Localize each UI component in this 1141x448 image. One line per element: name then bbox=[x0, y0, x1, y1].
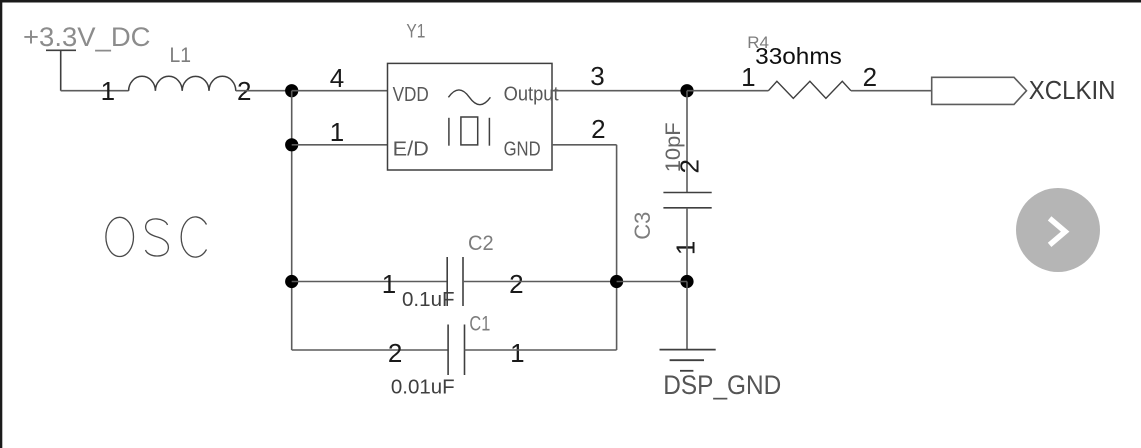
wire R4 to connector bbox=[851, 90, 932, 92]
svg-text:XCLKIN: XCLKIN bbox=[1029, 75, 1116, 105]
node A junction dot bbox=[285, 84, 298, 97]
svg-text:33ohms: 33ohms bbox=[755, 43, 842, 69]
svg-text:1: 1 bbox=[670, 241, 700, 255]
crystal symbol inside Y1 bbox=[449, 117, 490, 146]
svg-text:C2: C2 bbox=[468, 232, 494, 255]
frame top border bbox=[0, 0, 1141, 3]
svg-text:C1: C1 bbox=[469, 313, 490, 336]
svg-text:0.1uF: 0.1uF bbox=[402, 289, 455, 311]
power symbol +3.3V_DC bbox=[46, 50, 76, 90]
wire node C down to capacitor C3 bbox=[686, 91, 688, 193]
wire node A to VDD pin bbox=[292, 90, 388, 92]
svg-text:2: 2 bbox=[388, 338, 402, 368]
wire vertical left bus x=291.7 bbox=[291, 91, 293, 350]
svg-text:VDD: VDD bbox=[393, 84, 429, 106]
svg-text:1: 1 bbox=[101, 76, 115, 106]
node C junction dot bbox=[680, 84, 693, 97]
wire C2 right plate to right bus bbox=[463, 281, 617, 283]
wire node D to ground bbox=[686, 282, 688, 350]
wire GND pin to right bus bbox=[552, 144, 617, 146]
wire C3 to node D bbox=[686, 208, 688, 282]
wire Output pin to node C bbox=[552, 90, 687, 92]
svg-text:DSP_GND: DSP_GND bbox=[663, 370, 781, 400]
svg-text:Output: Output bbox=[504, 84, 559, 106]
resistor R4 bbox=[768, 81, 851, 98]
ground symbol DSP_GND bbox=[660, 350, 716, 371]
svg-text:1: 1 bbox=[741, 62, 755, 92]
svg-text:GND: GND bbox=[504, 139, 541, 161]
svg-text:1: 1 bbox=[330, 117, 344, 147]
wire node B to E/D pin bbox=[292, 144, 388, 146]
svg-text:C3: C3 bbox=[630, 212, 655, 240]
title text OSC (single-stroke letters) bbox=[106, 217, 207, 257]
node D junction dot bbox=[680, 275, 693, 288]
capacitor C1 bbox=[448, 325, 464, 376]
svg-text:2: 2 bbox=[591, 114, 605, 144]
wire left bus to C1 left plate bbox=[292, 349, 448, 351]
oscillator U1 box Y1 bbox=[388, 63, 553, 170]
svg-text:L1: L1 bbox=[170, 44, 192, 67]
svg-text:Y1: Y1 bbox=[406, 22, 425, 43]
node E junction dot (left bus, C2 row) bbox=[285, 275, 298, 288]
carousel next button bbox=[1016, 188, 1100, 272]
svg-text:E/D: E/D bbox=[393, 139, 429, 161]
wire from power to inductor L1 bbox=[61, 90, 129, 92]
wire node F to node D bbox=[617, 281, 687, 283]
svg-text:0.01uF: 0.01uF bbox=[391, 376, 455, 398]
connector XCLKIN off-page symbol bbox=[932, 77, 1027, 104]
svg-text:1: 1 bbox=[510, 338, 524, 368]
svg-text:+3.3V_DC: +3.3V_DC bbox=[23, 22, 151, 52]
capacitor C2 bbox=[447, 257, 463, 306]
wire L1 to node A bbox=[236, 90, 292, 92]
svg-text:2: 2 bbox=[674, 159, 704, 173]
svg-text:2: 2 bbox=[863, 62, 877, 92]
wire node C to resistor R4 bbox=[687, 90, 768, 92]
wire node E to C2 left plate bbox=[292, 281, 448, 283]
inductor L1 bbox=[129, 76, 236, 91]
wire C1 right plate to right bus bbox=[465, 349, 617, 351]
svg-text:4: 4 bbox=[330, 63, 344, 93]
frame left border bbox=[0, 0, 2, 448]
sine wave symbol inside Y1 bbox=[448, 90, 490, 105]
svg-text:3: 3 bbox=[590, 61, 604, 91]
node F junction dot (right bus, C2 row) bbox=[610, 275, 623, 288]
svg-text:1: 1 bbox=[382, 269, 396, 299]
node B junction dot bbox=[285, 138, 298, 151]
svg-text:2: 2 bbox=[509, 269, 523, 299]
capacitor C3 bbox=[663, 193, 711, 208]
wire vertical right bus x=616.6 bbox=[616, 145, 618, 350]
